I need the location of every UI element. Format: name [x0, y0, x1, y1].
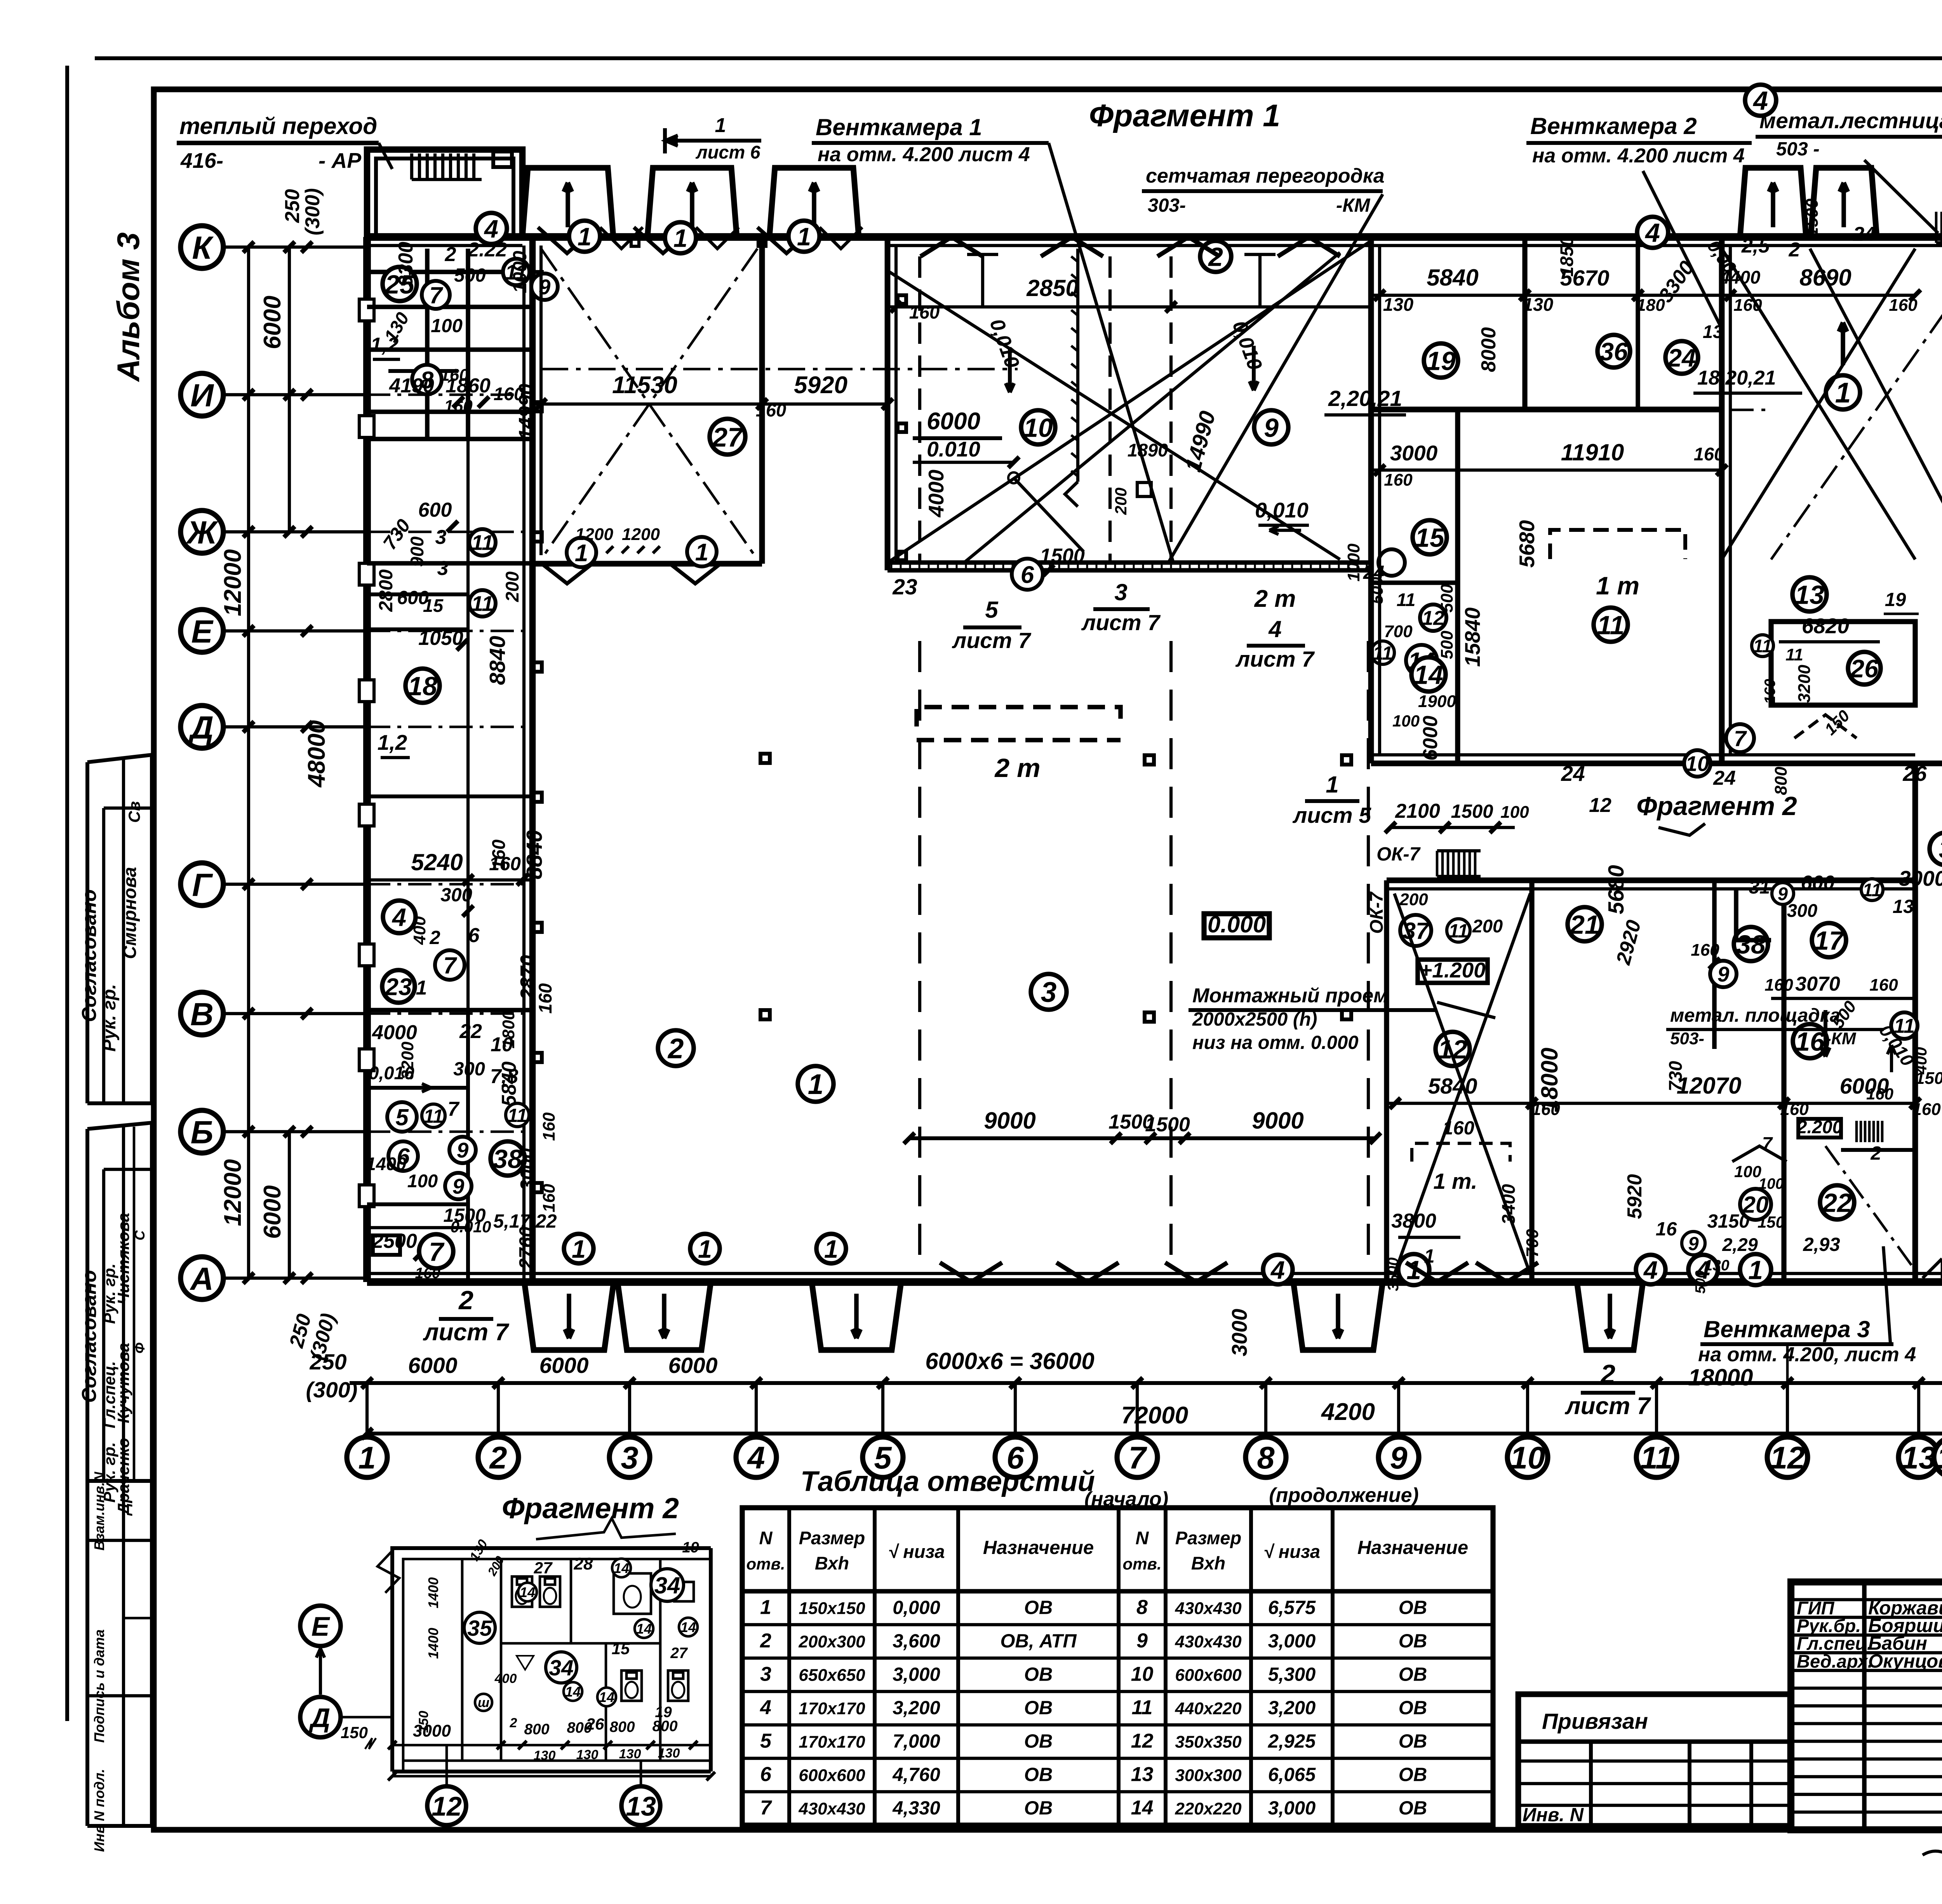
- svg-text:130: 130: [1383, 294, 1413, 315]
- svg-text:6: 6: [760, 1763, 772, 1786]
- svg-text:11: 11: [1863, 880, 1882, 900]
- svg-text:С: С: [132, 1230, 148, 1240]
- svg-text:13: 13: [1893, 896, 1914, 917]
- svg-text:ОВ: ОВ: [1024, 1664, 1053, 1685]
- svg-text:72000: 72000: [1121, 1402, 1188, 1429]
- svg-text:Фрагмент 2: Фрагмент 2: [502, 1492, 679, 1524]
- svg-text:1850: 1850: [1556, 236, 1577, 277]
- svg-text:4,330: 4,330: [892, 1798, 940, 1819]
- svg-text:отв.: отв.: [1122, 1555, 1161, 1573]
- svg-text:ОВ: ОВ: [1399, 1664, 1427, 1685]
- svg-text:12000: 12000: [219, 549, 246, 616]
- svg-text:24: 24: [1853, 223, 1876, 246]
- svg-text:И: И: [190, 377, 214, 413]
- svg-text:1: 1: [797, 222, 811, 251]
- svg-text:-КМ: -КМ: [1825, 1029, 1857, 1048]
- svg-text:3,200: 3,200: [893, 1697, 940, 1718]
- svg-text:6000: 6000: [259, 296, 286, 349]
- svg-text:34: 34: [549, 1656, 573, 1681]
- svg-text:6,065: 6,065: [1268, 1764, 1316, 1785]
- svg-text:8: 8: [1257, 1441, 1274, 1475]
- svg-text:1500: 1500: [1040, 545, 1085, 567]
- svg-text:лист 7: лист 7: [952, 628, 1031, 653]
- svg-text:Ж: Ж: [186, 514, 219, 550]
- svg-text:130: 130: [658, 1746, 680, 1761]
- svg-text:650х650: 650х650: [799, 1665, 865, 1685]
- svg-text:11: 11: [424, 1106, 444, 1127]
- svg-text:Венткамера 1: Венткамера 1: [816, 114, 982, 140]
- svg-text:0.000: 0.000: [1208, 911, 1266, 937]
- svg-text:11: 11: [1785, 645, 1803, 664]
- svg-text:160: 160: [1762, 679, 1778, 704]
- svg-text:16: 16: [1656, 1219, 1677, 1240]
- svg-text:3000: 3000: [1227, 1308, 1251, 1356]
- svg-text:6000: 6000: [259, 1185, 286, 1239]
- svg-text:7: 7: [429, 282, 443, 308]
- svg-text:160: 160: [415, 1265, 440, 1282]
- svg-text:150х150: 150х150: [799, 1599, 865, 1618]
- svg-text:11: 11: [1373, 643, 1393, 664]
- svg-text:ОВ: ОВ: [1399, 1764, 1427, 1785]
- svg-text:- АР: - АР: [318, 148, 361, 172]
- svg-text:Рук. гр.: Рук. гр.: [99, 984, 119, 1052]
- svg-text:11: 11: [1753, 636, 1772, 656]
- svg-text:180: 180: [1636, 296, 1665, 315]
- svg-text:160: 160: [440, 366, 469, 385]
- svg-text:12: 12: [432, 1791, 462, 1821]
- svg-text:800: 800: [567, 1719, 592, 1736]
- svg-text:36: 36: [1600, 337, 1628, 366]
- svg-text:Г: Г: [192, 867, 214, 903]
- svg-text:300х300: 300х300: [1175, 1766, 1242, 1785]
- svg-text:Вед.арх.: Вед.арх.: [1797, 1651, 1873, 1671]
- svg-text:100: 100: [1734, 1162, 1761, 1181]
- svg-text:1: 1: [1326, 772, 1338, 798]
- svg-text:ОВ: ОВ: [1024, 1697, 1053, 1718]
- svg-text:1400: 1400: [366, 1153, 407, 1174]
- svg-text:2000х2500 (h): 2000х2500 (h): [1192, 1009, 1317, 1030]
- svg-text:12: 12: [1770, 1441, 1805, 1475]
- svg-text:250: 250: [281, 189, 304, 223]
- svg-text:503-: 503-: [1670, 1029, 1704, 1048]
- svg-text:160: 160: [1912, 1100, 1941, 1119]
- svg-text:1200: 1200: [575, 525, 613, 544]
- svg-text:Размер: Размер: [799, 1528, 865, 1548]
- svg-text:3800: 3800: [1391, 1210, 1436, 1232]
- svg-text:4: 4: [1268, 616, 1281, 642]
- svg-text:3000: 3000: [413, 1721, 451, 1740]
- svg-text:-КМ: -КМ: [1336, 195, 1370, 216]
- svg-text:160: 160: [1384, 470, 1413, 490]
- svg-text:18,20,21: 18,20,21: [1697, 367, 1776, 389]
- svg-text:13: 13: [1901, 1441, 1936, 1475]
- svg-text:5: 5: [985, 597, 999, 623]
- svg-text:300: 300: [1787, 900, 1817, 921]
- svg-text:Кучутова: Кучутова: [114, 1343, 132, 1423]
- svg-text:3: 3: [435, 526, 447, 549]
- svg-text:100: 100: [1758, 1176, 1784, 1192]
- svg-text:1,2: 1,2: [378, 730, 407, 754]
- svg-text:430х430: 430х430: [1175, 1599, 1242, 1618]
- svg-text:170х170: 170х170: [799, 1699, 865, 1718]
- svg-text:5,300: 5,300: [1268, 1664, 1316, 1685]
- svg-text:8000: 8000: [1477, 327, 1500, 372]
- svg-text:200: 200: [1399, 890, 1428, 909]
- svg-text:1400: 1400: [425, 1577, 441, 1608]
- svg-text:12: 12: [1131, 1730, 1154, 1752]
- svg-text:лист 6: лист 6: [695, 142, 760, 162]
- svg-text:Подпись и дата: Подпись и дата: [91, 1629, 107, 1743]
- svg-text:2 т: 2 т: [1254, 585, 1296, 612]
- svg-text:на отм. 4.200 лист 4: на отм. 4.200 лист 4: [818, 143, 1030, 166]
- svg-text:6000: 6000: [927, 408, 980, 435]
- svg-text:2800: 2800: [376, 569, 397, 612]
- svg-text:0,000: 0,000: [893, 1597, 940, 1618]
- svg-text:10: 10: [1685, 752, 1709, 776]
- svg-text:сетчатая перегородка: сетчатая перегородка: [1146, 165, 1385, 187]
- svg-text:3200: 3200: [1795, 665, 1814, 703]
- svg-text:14: 14: [565, 1684, 581, 1700]
- svg-text:2: 2: [429, 927, 440, 948]
- svg-text:16: 16: [1795, 1027, 1825, 1056]
- svg-text:5680: 5680: [1515, 520, 1539, 568]
- svg-text:+1.200: +1.200: [1420, 958, 1486, 982]
- svg-text:8: 8: [1136, 1596, 1148, 1618]
- svg-text:160: 160: [1694, 444, 1724, 464]
- svg-text:5: 5: [760, 1730, 772, 1752]
- svg-text:1890: 1890: [1128, 440, 1168, 460]
- svg-text:130: 130: [1523, 294, 1553, 315]
- svg-text:6000: 6000: [1419, 716, 1442, 761]
- svg-text:1900: 1900: [1418, 692, 1456, 711]
- svg-text:1: 1: [824, 1235, 838, 1263]
- svg-text:9: 9: [457, 1138, 469, 1162]
- svg-text:730: 730: [1665, 1061, 1686, 1091]
- svg-text:500: 500: [1368, 577, 1386, 604]
- svg-text:1 т: 1 т: [1596, 571, 1639, 600]
- svg-text:4: 4: [1644, 218, 1660, 247]
- svg-text:160: 160: [539, 1112, 559, 1141]
- svg-text:500: 500: [1692, 1270, 1708, 1294]
- svg-text:ОК-7: ОК-7: [1366, 892, 1387, 934]
- svg-text:0.010: 0.010: [927, 437, 980, 461]
- svg-text:1: 1: [808, 1069, 824, 1100]
- svg-text:350х350: 350х350: [1175, 1732, 1242, 1751]
- svg-text:12: 12: [1589, 794, 1611, 817]
- svg-text:Альбом 3: Альбом 3: [111, 232, 146, 382]
- svg-text:3: 3: [760, 1663, 771, 1685]
- svg-text:2.200: 2.200: [1796, 1117, 1843, 1137]
- svg-text:11: 11: [1449, 921, 1469, 942]
- svg-text:теплый переход: теплый переход: [179, 113, 377, 139]
- svg-text:Смирнова: Смирнова: [119, 867, 140, 959]
- svg-text:400: 400: [494, 1671, 517, 1686]
- svg-text:440х220: 440х220: [1175, 1699, 1242, 1718]
- svg-text:3,600: 3,600: [893, 1631, 940, 1651]
- svg-text:1050: 1050: [418, 627, 463, 650]
- svg-text:303-: 303-: [1148, 195, 1186, 216]
- svg-text:Ф: Ф: [132, 1343, 148, 1354]
- svg-text:К: К: [192, 230, 214, 266]
- svg-text:7,8: 7,8: [490, 1065, 518, 1088]
- svg-text:4200: 4200: [1321, 1399, 1375, 1425]
- svg-text:600х600: 600х600: [1175, 1665, 1242, 1685]
- svg-text:4: 4: [1643, 1256, 1658, 1284]
- svg-text:15: 15: [612, 1639, 630, 1658]
- svg-text:1400: 1400: [425, 1628, 441, 1659]
- svg-text:3070: 3070: [1795, 973, 1840, 995]
- svg-text:9: 9: [1718, 962, 1730, 986]
- svg-text:6000: 6000: [539, 1353, 589, 1378]
- svg-text:28: 28: [574, 1554, 593, 1573]
- svg-text:низ на отм. 0.000: низ на отм. 0.000: [1192, 1032, 1359, 1053]
- svg-text:1: 1: [715, 114, 726, 137]
- svg-text:26: 26: [1850, 654, 1879, 683]
- svg-text:2,5: 2,5: [1741, 235, 1770, 257]
- svg-text:20: 20: [1742, 1192, 1769, 1218]
- svg-text:2: 2: [1870, 1143, 1881, 1164]
- svg-text:23: 23: [385, 974, 412, 1000]
- svg-text:800: 800: [524, 1721, 549, 1738]
- svg-text:700: 700: [1384, 622, 1413, 641]
- svg-text:2.22: 2.22: [467, 239, 507, 261]
- svg-text:11: 11: [471, 531, 493, 555]
- svg-text:14: 14: [520, 1584, 535, 1600]
- svg-text:6000: 6000: [408, 1353, 458, 1378]
- svg-text:160: 160: [1531, 1100, 1560, 1119]
- svg-text:160: 160: [1889, 296, 1918, 315]
- svg-text:9: 9: [1390, 1441, 1407, 1475]
- svg-text:Привязан: Привязан: [1542, 1709, 1648, 1734]
- svg-text:1: 1: [572, 1235, 586, 1263]
- svg-text:3,000: 3,000: [1268, 1631, 1316, 1651]
- svg-text:2,29: 2,29: [1722, 1234, 1758, 1255]
- svg-text:1: 1: [358, 1441, 376, 1475]
- svg-text:3000: 3000: [1390, 441, 1438, 465]
- svg-text:2: 2: [1600, 1359, 1615, 1389]
- svg-text:150: 150: [341, 1723, 368, 1742]
- svg-text:ОВ, АТП: ОВ, АТП: [1000, 1631, 1077, 1651]
- svg-text:200: 200: [502, 571, 522, 602]
- svg-text:5840: 5840: [1428, 1074, 1477, 1099]
- svg-text:19: 19: [682, 1539, 699, 1556]
- svg-text:11: 11: [1640, 1441, 1673, 1475]
- svg-text:2: 2: [667, 1033, 684, 1064]
- svg-text:9: 9: [1778, 883, 1788, 904]
- svg-text:17: 17: [1814, 926, 1845, 955]
- svg-text:2: 2: [458, 1286, 473, 1315]
- svg-text:160: 160: [539, 1184, 559, 1212]
- svg-text:5920: 5920: [1624, 1174, 1646, 1219]
- svg-text:13: 13: [1131, 1763, 1154, 1786]
- svg-text:лист 7: лист 7: [423, 1319, 509, 1346]
- svg-text:ОК-7: ОК-7: [1376, 844, 1421, 865]
- svg-text:14: 14: [1131, 1796, 1154, 1819]
- svg-text:5: 5: [395, 1104, 409, 1131]
- svg-text:12000: 12000: [219, 1159, 246, 1226]
- svg-text:14: 14: [680, 1619, 696, 1635]
- svg-text:21: 21: [1569, 910, 1599, 939]
- svg-text:ОВ: ОВ: [1399, 1697, 1427, 1718]
- svg-text:7: 7: [760, 1796, 772, 1819]
- svg-text:Окунцов: Окунцов: [1868, 1651, 1942, 1672]
- svg-text:Инв N подл.: Инв N подл.: [91, 1769, 107, 1852]
- svg-text:9: 9: [1264, 413, 1279, 442]
- svg-text:19: 19: [1885, 589, 1906, 610]
- svg-text:√ низа: √ низа: [888, 1541, 945, 1562]
- svg-text:ш: ш: [478, 1695, 489, 1710]
- svg-text:лист 7: лист 7: [1564, 1393, 1651, 1420]
- svg-text:Таблица отверстий: Таблица отверстий: [800, 1466, 1095, 1497]
- svg-text:4: 4: [1270, 1256, 1285, 1284]
- svg-text:2500: 2500: [372, 1230, 417, 1252]
- svg-text:160: 160: [909, 302, 940, 322]
- svg-text:100: 100: [1392, 712, 1420, 730]
- svg-text:Инв. N: Инв. N: [1523, 1805, 1584, 1826]
- svg-text:4: 4: [747, 1441, 765, 1475]
- svg-text:1: 1: [698, 1235, 712, 1263]
- svg-text:1800: 1800: [499, 1010, 518, 1049]
- svg-text:6000: 6000: [668, 1353, 718, 1378]
- svg-text:5840: 5840: [1427, 265, 1478, 291]
- svg-text:38: 38: [1736, 930, 1766, 959]
- svg-text:Фрагмент 2: Фрагмент 2: [1636, 791, 1797, 821]
- svg-text:2: 2: [445, 243, 456, 266]
- svg-text:160: 160: [756, 400, 786, 420]
- svg-text:9: 9: [452, 1174, 465, 1198]
- svg-text:А: А: [190, 1261, 214, 1297]
- svg-text:14: 14: [636, 1621, 652, 1637]
- svg-text:13: 13: [626, 1791, 656, 1821]
- svg-text:ОВ: ОВ: [1024, 1798, 1053, 1819]
- svg-text:430х430: 430х430: [798, 1799, 865, 1818]
- svg-text:14: 14: [599, 1689, 614, 1705]
- svg-text:8840: 8840: [485, 636, 510, 685]
- svg-text:2,925: 2,925: [1268, 1731, 1316, 1752]
- svg-text:Согласовано: Согласовано: [78, 1270, 101, 1403]
- svg-text:1 т.: 1 т.: [1433, 1169, 1477, 1194]
- svg-text:31: 31: [1749, 877, 1770, 898]
- svg-text:Взам.инв.N: Взам.инв.N: [91, 1472, 107, 1551]
- svg-text:метал.лестница: метал.лестница: [1759, 108, 1942, 133]
- svg-text:100: 100: [431, 315, 463, 336]
- svg-text:Е: Е: [311, 1611, 331, 1641]
- svg-text:Вхh: Вхh: [815, 1553, 849, 1573]
- svg-text:400: 400: [410, 916, 429, 945]
- svg-text:11: 11: [1397, 589, 1416, 610]
- svg-text:2,93: 2,93: [1803, 1234, 1840, 1255]
- svg-text:9: 9: [1136, 1629, 1148, 1652]
- svg-text:ОВ: ОВ: [1024, 1731, 1053, 1752]
- svg-text:на отм. 4.200, лист 4: на отм. 4.200, лист 4: [1698, 1343, 1916, 1366]
- svg-text:1500: 1500: [1915, 1069, 1942, 1088]
- svg-text:5240: 5240: [411, 849, 463, 875]
- svg-text:3000: 3000: [1899, 866, 1942, 890]
- svg-text:Вхh: Вхh: [1191, 1553, 1225, 1573]
- svg-text:10: 10: [1023, 413, 1053, 442]
- svg-text:11: 11: [1132, 1696, 1153, 1719]
- svg-text:6: 6: [468, 924, 480, 947]
- svg-text:В: В: [190, 996, 214, 1032]
- svg-text:1: 1: [578, 222, 592, 251]
- svg-text:200: 200: [1112, 488, 1130, 515]
- svg-text:500: 500: [1437, 631, 1456, 659]
- svg-text:(продолжение): (продолжение): [1269, 1484, 1418, 1507]
- svg-text:700: 700: [1523, 1229, 1542, 1258]
- svg-text:600: 600: [418, 499, 452, 521]
- svg-text:160: 160: [1691, 941, 1719, 960]
- svg-text:4: 4: [760, 1696, 771, 1719]
- svg-text:лист 5: лист 5: [1292, 803, 1371, 828]
- svg-text:12070: 12070: [1677, 1073, 1742, 1099]
- svg-text:лист 7: лист 7: [1235, 647, 1315, 672]
- svg-text:15: 15: [1415, 523, 1445, 552]
- svg-text:416-: 416-: [180, 148, 223, 172]
- svg-text:2: 2: [489, 1441, 507, 1475]
- svg-text:ОВ: ОВ: [1024, 1764, 1053, 1785]
- svg-text:220х220: 220х220: [1175, 1799, 1242, 1818]
- svg-text:13: 13: [1703, 321, 1723, 342]
- svg-text:6000х6 = 36000: 6000х6 = 36000: [925, 1348, 1094, 1374]
- svg-text:35: 35: [467, 1616, 492, 1641]
- svg-text:14: 14: [614, 1560, 629, 1576]
- svg-text:7: 7: [443, 953, 457, 979]
- svg-text:48000: 48000: [303, 720, 330, 788]
- svg-text:14990: 14990: [515, 384, 538, 440]
- svg-text:1: 1: [760, 1596, 771, 1618]
- svg-text:ОВ: ОВ: [1399, 1597, 1427, 1618]
- svg-text:ОВ: ОВ: [1399, 1798, 1427, 1819]
- svg-text:Св: Св: [125, 801, 143, 823]
- svg-text:Фрагмент 1: Фрагмент 1: [1089, 98, 1280, 133]
- svg-text:0,010: 0,010: [369, 1063, 414, 1083]
- svg-text:24: 24: [1713, 767, 1736, 789]
- svg-text:Размер: Размер: [1175, 1528, 1241, 1548]
- svg-text:14: 14: [1414, 660, 1443, 690]
- svg-text:200: 200: [1472, 916, 1503, 936]
- svg-text:11: 11: [471, 592, 493, 616]
- svg-text:лист 7: лист 7: [1081, 610, 1161, 635]
- svg-text:4000: 4000: [372, 1021, 417, 1044]
- svg-text:6820: 6820: [1802, 614, 1850, 638]
- svg-text:11: 11: [508, 1105, 527, 1126]
- svg-text:1000: 1000: [510, 251, 531, 293]
- svg-text:1,2: 1,2: [371, 334, 398, 356]
- svg-text:9: 9: [1688, 1233, 1699, 1254]
- svg-text:11910: 11910: [1561, 439, 1624, 465]
- svg-text:14: 14: [1937, 1441, 1942, 1475]
- svg-text:130: 130: [534, 1748, 556, 1763]
- svg-text:11: 11: [1597, 610, 1625, 640]
- svg-text:18: 18: [408, 671, 437, 701]
- svg-text:8840: 8840: [522, 830, 547, 879]
- svg-text:3,200: 3,200: [1268, 1697, 1316, 1718]
- svg-text:1500: 1500: [1803, 199, 1822, 237]
- svg-text:6: 6: [1021, 561, 1034, 588]
- svg-text:3: 3: [1041, 977, 1057, 1008]
- svg-text:5920: 5920: [794, 372, 847, 399]
- svg-text:34: 34: [654, 1573, 680, 1599]
- svg-text:27: 27: [670, 1645, 688, 1662]
- svg-text:2: 2: [760, 1629, 771, 1652]
- svg-text:300: 300: [440, 885, 472, 906]
- svg-text:160: 160: [489, 854, 521, 874]
- svg-text:160: 160: [1780, 1100, 1809, 1119]
- svg-text:2: 2: [510, 1716, 517, 1730]
- svg-text:6,575: 6,575: [1268, 1597, 1316, 1618]
- svg-text:3: 3: [437, 557, 449, 580]
- svg-text:4,760: 4,760: [892, 1764, 940, 1785]
